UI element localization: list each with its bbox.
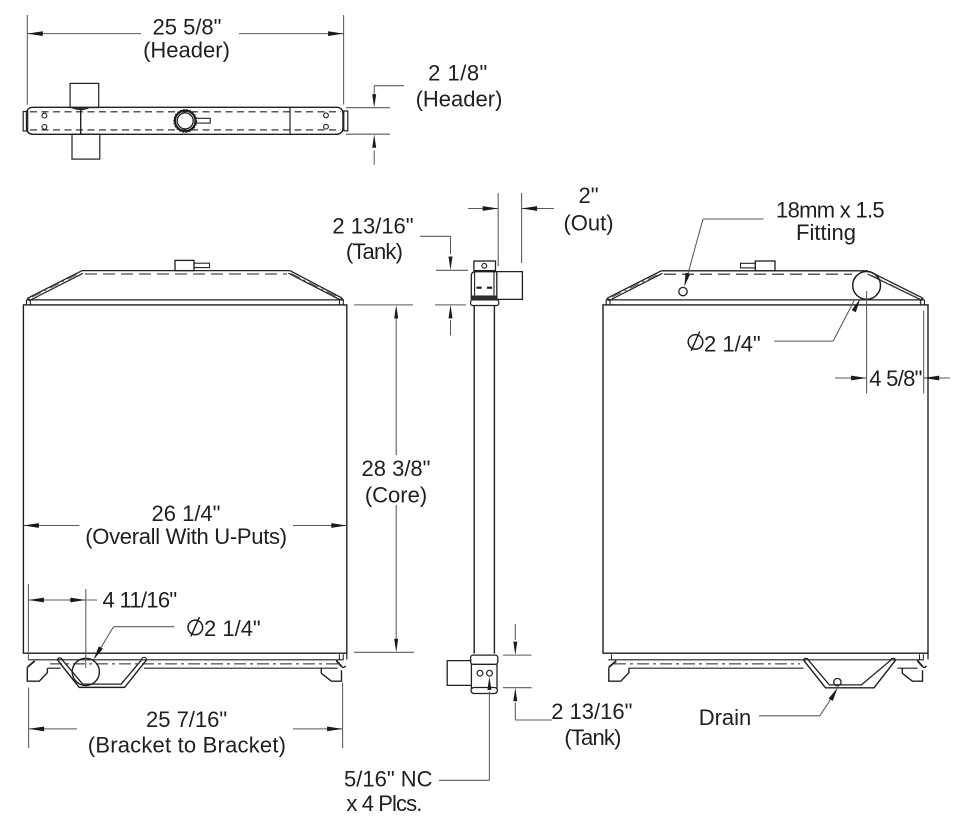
dim 4 11/16 left extension line [27, 584, 29, 660]
side filler neck [474, 261, 496, 271]
header bar (top view outline) [27, 107, 344, 134]
dim 26 1/4 left arrow [23, 523, 39, 528]
svg-text:x 4 Plcs.: x 4 Plcs. [346, 791, 421, 816]
dim 4 5/8 right extension line [923, 311, 925, 394]
label 18mm leader horizontal [703, 218, 764, 220]
dim 2in left arrow (right) [483, 206, 499, 211]
mounting bracket lower rectangle [72, 134, 100, 159]
front U-put right slope top cap [142, 657, 147, 659]
dim 2in left line [468, 208, 498, 210]
svg-text:4 11/16": 4 11/16" [103, 588, 177, 613]
svg-text:(Core): (Core) [365, 483, 427, 508]
dim tank-bot lower arrow (up) [513, 688, 517, 702]
dim 26 1/4 line right segment [293, 525, 347, 527]
side top tank hidden dash left [476, 287, 481, 289]
rear top flange right tick [920, 300, 922, 305]
dim 4 5/8 left arrow (right) [851, 376, 867, 381]
rear top tank left slope end cap [607, 298, 609, 300]
dim tank-bot leader horizontal [515, 719, 552, 721]
rear dia leader diagonal [833, 299, 855, 341]
dim 2 1/8 bottom extension line [346, 133, 390, 135]
dim tank-top lower arrow (up) [449, 305, 453, 319]
label Drain arrow (up-right) [829, 688, 838, 701]
side bottom tank left wall [470, 664, 472, 688]
rear bottom band right tick 2 [922, 654, 924, 660]
dim 28 3/8 top extension line [354, 304, 413, 306]
dim 28 3/8 bottom arrow (down) [394, 639, 398, 653]
dim 4 11/16 left arrow [28, 598, 44, 603]
side view core right line [493, 305, 495, 653]
front drain hole circle (2 1/4) [72, 658, 99, 685]
dim 25 5/8 left extension line [26, 15, 28, 105]
rear drain hole circle [834, 678, 841, 685]
svg-text:4 5/8": 4 5/8" [869, 366, 922, 391]
dim 2in left extension line [497, 193, 499, 266]
side bottom bolt hole right [487, 670, 493, 676]
side view core left line [473, 305, 475, 653]
header hidden line upper (dashed) [30, 111, 341, 113]
svg-text:25 5/8": 25 5/8" [153, 15, 222, 40]
dim 25 5/8 left arrow [27, 31, 43, 36]
rear view core rectangle [603, 305, 928, 653]
dim tank-top leader vertical [450, 236, 452, 254]
dim 4 11/16 right arrow [70, 598, 86, 603]
rear U-put notch outer [804, 660, 896, 688]
rear bottom band left tick [611, 654, 613, 660]
side top flange [471, 300, 499, 306]
dim tank-bot upper arrow (down) [513, 642, 517, 656]
dim 2in right arrow (left) [522, 206, 538, 211]
svg-text:2": 2" [578, 183, 598, 208]
rear bracket bar bottom line left [629, 667, 804, 669]
front filler neck [175, 260, 194, 270]
front top flange left tick [26, 300, 28, 305]
svg-text:2 1/4": 2 1/4" [204, 616, 261, 641]
rear top tank dashed centerline [664, 273, 852, 275]
svg-text:(Header): (Header) [416, 87, 503, 112]
rear right corner diagonal tick [917, 661, 922, 667]
svg-text:(Bracket to Bracket): (Bracket to Bracket) [88, 733, 286, 758]
front bottom band right tick 2 [342, 654, 344, 660]
header hole bottom-right [324, 124, 329, 129]
svg-text:2 1/4": 2 1/4" [704, 332, 761, 357]
dim tank-bot upper extension line [503, 654, 532, 656]
svg-text:(Overall With U-Puts): (Overall With U-Puts) [85, 524, 287, 549]
rear top tank left slope outer [607, 271, 661, 298]
front left corner diagonal tick [27, 661, 34, 667]
dim 25 7/16 right extension line [342, 683, 344, 749]
dim 2 1/8 upper arrow (down) [372, 94, 376, 108]
dim 2in right extension line [521, 193, 523, 263]
rear top tank left slope inner [611, 273, 663, 299]
dim 2in right line [522, 208, 554, 210]
front filler neck handle [194, 263, 210, 267]
filler cap handle [196, 118, 210, 123]
front right edge lower stub [346, 653, 348, 659]
header hole top-left [42, 113, 47, 118]
front U-put notch outer [57, 660, 146, 688]
rear top tank flange line [606, 299, 924, 301]
front top tank left slope outer [28, 271, 82, 298]
rear left foot [609, 667, 629, 681]
rear top tank right slope inner [868, 274, 921, 300]
dim 4 5/8 center extension line [866, 291, 868, 394]
rear top flange left tick 2 [609, 300, 611, 305]
header hidden line lower (dashed) [30, 129, 341, 131]
front top flange right tick [339, 300, 341, 305]
rear bottom band line [608, 659, 923, 661]
dim tank-top upper arrow (down) [449, 257, 453, 271]
dim 26 1/4 line left segment [23, 525, 79, 527]
dim 2 1/8 lower arrow (up) [372, 134, 376, 148]
front top tank right slope end cap [341, 298, 342, 300]
filler cap inner circle [177, 113, 193, 129]
side top tank dark joint band [472, 296, 496, 300]
side top tank outline [471, 272, 497, 300]
side outlet tube (2in) [497, 272, 522, 300]
dim 4 5/8 right line [924, 377, 950, 379]
svg-text:Drain: Drain [699, 705, 752, 730]
front bracket bar bottom line left [47, 667, 60, 669]
rear U-put notch inner [808, 660, 890, 685]
dim 25 7/16 right arrow [327, 727, 343, 732]
side filler neck circle [482, 263, 487, 268]
header bar right end cap [344, 111, 348, 131]
front U-put notch inner [62, 660, 141, 684]
svg-text:2 13/16": 2 13/16" [551, 699, 632, 724]
front right foot [321, 668, 341, 681]
front top tank left slope inner [31, 273, 83, 299]
dim 25 7/16 left extension line [28, 688, 30, 748]
svg-text:(Header): (Header) [143, 38, 230, 63]
front right corner hook [341, 666, 345, 668]
dim 4 11/16 circle-center extension line [85, 589, 87, 668]
dim 4 5/8 right arrow (left) [924, 376, 940, 381]
front dia label arrow [94, 646, 103, 659]
rear top tank right slope end cap [921, 298, 922, 300]
dim 26 1/4 right arrow [331, 523, 347, 528]
front bracket bar bottom line right [144, 667, 338, 669]
rear top flange right tick 2 [924, 300, 926, 305]
front top flange left tick 2 [29, 300, 31, 305]
rear 2 1/4 hole circle [853, 272, 881, 300]
svg-text:(Tank): (Tank) [564, 725, 620, 750]
dim tank-bot upper leader vertical [514, 624, 516, 640]
label 5/16 leader vertical [488, 692, 490, 781]
label Drain leader horizontal [759, 715, 820, 717]
front top tank top plate [82, 270, 290, 272]
dim 2 1/8 upper leader vertical [373, 86, 375, 95]
rear top tank left slope centerline [612, 274, 659, 298]
dim tank-top upper extension line [436, 269, 468, 271]
rear U-put right slope top cap [891, 658, 896, 660]
rear bracket centerline (dash-dot) [614, 663, 800, 665]
svg-text:2 1/8": 2 1/8" [428, 61, 488, 86]
dim 25 7/16 line left segment [29, 728, 77, 730]
dim 28 3/8 vertical line lower [395, 505, 397, 639]
rear filler neck [755, 261, 775, 271]
front bracket centerline (dash-dot) [50, 663, 340, 665]
front dia symbol [188, 620, 203, 635]
front top tank right slope inner [288, 273, 340, 300]
label 18mm arrow (down-left) [684, 273, 690, 287]
front bottom band right tick [338, 654, 340, 660]
rear right foot [902, 668, 922, 681]
dim 28 3/8 vertical line upper [395, 318, 397, 455]
front right corner diagonal tick [336, 661, 341, 667]
label 5/16 leader horizontal [439, 779, 490, 781]
rear U-put left slope top cap [804, 658, 809, 660]
filler cap outer knurled circle [175, 111, 196, 132]
front dia label leader diagonal [95, 627, 114, 658]
svg-text:25 7/16": 25 7/16" [146, 707, 227, 732]
dim tank-top lower extension line [435, 304, 466, 306]
rear top tank right slope centerline [872, 276, 919, 299]
label 18mm leader diagonal [686, 219, 704, 283]
side inlet tube (bottom left) [447, 661, 471, 686]
dim 2 1/8 lower leader vertical [373, 151, 375, 165]
dim 2 1/8 top extension line [346, 107, 390, 109]
svg-text:28 3/8": 28 3/8" [362, 456, 431, 481]
dim tank-bot lower extension line [503, 687, 532, 689]
dim 25 5/8 line left segment [27, 33, 141, 35]
rear dia symbol [688, 335, 703, 350]
bracket edge line across bar [80, 109, 82, 134]
front U-put left slope top cap [57, 658, 62, 660]
rear filler neck handle [741, 263, 756, 268]
dim 25 7/16 line right segment [293, 728, 343, 730]
dim tank-top leader horizontal [420, 235, 451, 237]
dim 28 3/8 top arrow (up) [394, 305, 398, 319]
header bar left end cap [23, 112, 28, 132]
front top tank right slope centerline [291, 274, 338, 298]
dim tank-top lower leader vertical [450, 320, 452, 336]
rear dia arrow (up-right) [852, 299, 861, 313]
svg-text:(Tank): (Tank) [346, 239, 402, 264]
dim 4 5/8 left line [835, 377, 867, 379]
side top tank inner left wall [474, 272, 476, 295]
front view core rectangle [23, 305, 346, 653]
front top flange right tick 2 [342, 300, 344, 305]
rear 18mm fitting hole [679, 287, 687, 295]
side top tank inner right wall [493, 272, 495, 295]
rear bracket bar bottom line right [898, 667, 918, 669]
header hole top-right [324, 113, 329, 118]
bracket weld shadow on bar [72, 108, 90, 110]
svg-text:18mm x 1.5: 18mm x 1.5 [776, 198, 884, 223]
rear top tank right slope outer [870, 272, 923, 298]
rear bottom band right tick [919, 654, 921, 660]
rear top tank top plate [661, 270, 868, 272]
dim 25 7/16 left arrow [29, 727, 44, 732]
header hole bottom-left [42, 125, 47, 130]
rear left corner diagonal tick [609, 661, 616, 667]
label 5/16 leader arrow (up) [487, 677, 491, 691]
front top tank dashed centerline [85, 273, 287, 275]
svg-text:2 13/16": 2 13/16" [332, 213, 413, 238]
rear top flange left tick [605, 300, 607, 305]
side bottom bolt hole left [477, 670, 483, 676]
front top tank left slope centerline [32, 274, 79, 298]
svg-text:(Out): (Out) [563, 211, 613, 236]
dim 25 5/8 right extension line [343, 15, 345, 105]
front bottom band line [28, 659, 343, 661]
dim 25 5/8 line right segment [239, 33, 344, 35]
side bottom flange [471, 655, 498, 664]
side bottom tank right wall [496, 664, 498, 688]
front top tank right slope outer [290, 271, 342, 298]
dim 4 11/16 line [28, 599, 97, 601]
mounting bracket upper rectangle [70, 83, 99, 107]
front left foot [27, 667, 47, 681]
front dia label leader horizontal [114, 626, 175, 628]
dim 25 5/8 right arrow [328, 31, 344, 36]
svg-text:26 1/4": 26 1/4" [152, 501, 221, 526]
side bottom tank bottom cap [471, 688, 497, 694]
dim 28 3/8 bottom extension line [354, 651, 414, 653]
dim tank-bot leader vertical [514, 703, 516, 721]
label Drain leader diagonal [820, 695, 834, 716]
front top tank left slope end cap [28, 298, 30, 300]
dim 2 1/8 leader horizontal [374, 85, 404, 87]
rear right edge lower stub [927, 653, 929, 659]
front top tank flange line [27, 299, 345, 301]
header panel joint line [289, 108, 291, 134]
svg-text:5/16" NC: 5/16" NC [344, 767, 433, 792]
svg-text:Fitting: Fitting [796, 220, 856, 245]
rear dia leader horizontal [774, 340, 833, 342]
rear right corner hook [922, 666, 926, 668]
side top tank hidden dash right [487, 287, 492, 289]
